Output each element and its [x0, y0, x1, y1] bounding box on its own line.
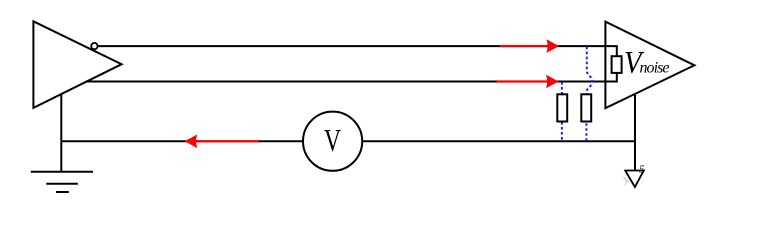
current arrow bottom (red, left) [185, 135, 259, 149]
current arrow middle (red, right) [497, 75, 559, 89]
chassis ground arrow (receiver) [624, 164, 646, 188]
capacitive leakage path (dashed) left [561, 82, 563, 141]
parasitic impedance Z1 [557, 94, 567, 121]
resistor Vnoise [612, 56, 622, 73]
wire: lower signal line to Vnoise bottom [87, 73, 617, 82]
parasitic impedance Z2 [581, 94, 591, 121]
capacitive leakage path (dashed) right with wire hop [586, 47, 592, 141]
svg-text:V: V [324, 122, 341, 158]
ground (earth) [31, 172, 93, 192]
wire: driver ground drop [60, 94, 62, 172]
wire: receiver ground drop [634, 95, 636, 171]
receiver amplifier U2 [605, 22, 694, 109]
svg-text:5: 5 [639, 164, 645, 176]
voltmeter V [303, 112, 362, 171]
inverting output bubble [91, 43, 97, 49]
driver amplifier U1 [33, 21, 121, 108]
wire: bottom return line [61, 140, 635, 142]
wire: top signal line to Vnoise top [98, 46, 617, 56]
current arrow top (red, right) [500, 39, 560, 53]
svg-text:noise: noise [640, 59, 670, 76]
